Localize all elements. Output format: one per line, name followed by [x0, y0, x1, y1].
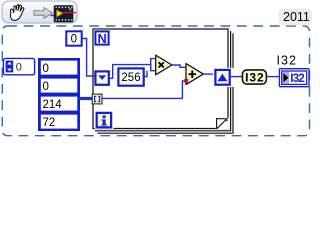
svg-text:0: 0	[43, 63, 49, 75]
svg-text:0: 0	[16, 62, 22, 74]
numeric constant 256	[118, 68, 143, 85]
for loop frame	[93, 29, 228, 129]
array constant element column	[38, 58, 80, 131]
wire conversion to indicator	[266, 76, 279, 78]
svg-text:I32: I32	[245, 70, 264, 84]
N count terminal	[94, 30, 111, 47]
VI filmstrip icon	[51, 6, 77, 23]
svg-text:72: 72	[43, 117, 56, 129]
snippet dashed border	[2, 26, 309, 136]
wire add to tunnel node	[203, 73, 215, 75]
arrow tool icon	[34, 8, 53, 19]
wire index node to multiply lower input	[109, 65, 156, 79]
svg-text:256: 256	[121, 72, 140, 84]
I32 indicator terminal	[279, 69, 309, 87]
svg-text:N: N	[97, 31, 106, 46]
thick array wire into tunnel	[80, 97, 93, 100]
add node	[186, 64, 203, 85]
multiply node	[156, 55, 172, 75]
wire multiply to add upper input	[172, 65, 186, 67]
wire tunnel node to conversion	[230, 76, 243, 78]
array constant index box	[3, 58, 34, 74]
wire 0-constant to index node	[82, 39, 96, 77]
svg-text:214: 214	[43, 99, 63, 111]
for loop stacked line 3	[97, 33, 233, 133]
coercion dot	[184, 79, 188, 83]
hand tool icon	[8, 3, 24, 22]
auto-index tunnel	[92, 94, 102, 104]
index node (down arrow)	[95, 71, 108, 84]
add array elements tunnel node	[213, 68, 236, 87]
wire tunnel to add lower input	[102, 81, 185, 98]
svg-text:2011: 2011	[283, 10, 310, 24]
wire vertical branch to multiply upper input	[151, 59, 156, 71]
svg-text:I32: I32	[290, 73, 305, 85]
svg-text:0: 0	[71, 34, 77, 46]
svg-text:I32: I32	[277, 54, 297, 68]
svg-text:0: 0	[43, 81, 49, 93]
2011 version chip	[279, 9, 313, 26]
i iteration terminal	[95, 111, 114, 129]
for loop corner fold	[216, 117, 229, 129]
wire 256 stub	[144, 71, 147, 77]
to-I32 conversion node	[242, 70, 266, 84]
for loop stacked line 2	[95, 31, 231, 131]
numeric constant 0	[66, 31, 81, 45]
toolbar box	[2, 1, 77, 23]
